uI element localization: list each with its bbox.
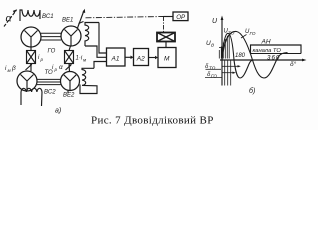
- dim arrow delta TO: [223, 65, 241, 67]
- 3-wire TO bus: [37, 79, 61, 84]
- shaft gearbox-M: [165, 42, 167, 48]
- svg-text:М: М: [164, 56, 170, 63]
- curve TO fine channel: [222, 33, 253, 78]
- svg-text:δ°: δ°: [290, 60, 297, 68]
- mech shaft dash-dot to OP: [86, 17, 164, 18]
- svg-text:α: α: [59, 64, 63, 71]
- rotor winding BE2: [82, 68, 94, 85]
- svg-text:д: д: [211, 43, 214, 49]
- svg-text:а): а): [55, 108, 61, 115]
- hatch area near origin: [219, 35, 229, 59]
- svg-text:ГО: ГО: [48, 49, 56, 55]
- svg-text:ОР: ОР: [176, 14, 186, 21]
- label delta_TO: [206, 68, 222, 70]
- OP box: [164, 12, 189, 21]
- callout box kanala TO: [251, 45, 302, 54]
- svg-text:ГО: ГО: [250, 31, 256, 36]
- wire BE1 bottom to A1: [85, 46, 107, 57]
- label i_p alpha with arrow: [52, 64, 72, 72]
- box A2: [134, 49, 149, 66]
- svg-text:канала ТО: канала ТО: [253, 48, 282, 54]
- angle input alpha: [4, 9, 17, 26]
- svg-text:ВС1: ВС1: [42, 14, 54, 20]
- svg-text:ВЕ1: ВЕ1: [62, 18, 73, 24]
- svg-text:м: м: [83, 58, 87, 63]
- svg-text:ВЕ2: ВЕ2: [63, 93, 75, 99]
- svg-text:ГО: ГО: [211, 74, 217, 79]
- svg-text:ТО: ТО: [209, 66, 216, 71]
- dim arrow delta GO: [223, 72, 236, 74]
- svg-text:360: 360: [267, 55, 280, 62]
- reducer box R2: [65, 46, 74, 72]
- reducer box R1: [27, 47, 36, 71]
- svg-text:1·i: 1·i: [76, 56, 83, 62]
- wire BE1 top to A1: [99, 23, 107, 54]
- svg-text:А1: А1: [111, 56, 120, 63]
- graph x-axis: [220, 59, 307, 62]
- wire BE2 bottom loop: [80, 85, 97, 94]
- arrow A2 to M: [149, 56, 159, 60]
- winding BC2: [21, 88, 42, 106]
- Ud level tick: [219, 47, 225, 49]
- curve GO coarse channel: [222, 31, 288, 78]
- shaft vertical dash-dot: [163, 17, 165, 33]
- svg-text:ТО: ТО: [45, 70, 54, 76]
- svg-text:А2: А2: [136, 56, 145, 63]
- rotor winding BE1: [85, 23, 99, 47]
- svg-text:Рис. 7 Двовідліковий ВР: Рис. 7 Двовідліковий ВР: [91, 115, 214, 127]
- svg-text:ВС2: ВС2: [44, 90, 56, 96]
- selsyn BC2: [17, 71, 37, 91]
- svg-text:м: м: [8, 68, 12, 73]
- svg-text:АН: АН: [261, 39, 271, 46]
- selsyn BC1: [21, 27, 41, 47]
- wire BE2 top to A1: [94, 62, 107, 69]
- svg-text:р: р: [40, 57, 44, 62]
- svg-text:U: U: [212, 18, 218, 25]
- gearbox bowtie: [157, 33, 175, 42]
- svg-text:α: α: [6, 13, 13, 25]
- shaft arrow BE1: [78, 9, 86, 28]
- svg-text:р: р: [54, 67, 58, 72]
- svg-text:б): б): [249, 87, 255, 95]
- selsyn BE1: [61, 26, 81, 46]
- svg-text:β: β: [11, 65, 16, 72]
- label i_m beta with arrow: [5, 64, 32, 73]
- svg-text:180: 180: [235, 53, 246, 59]
- label delta_GO: [205, 77, 222, 79]
- graph y-axis: [221, 16, 224, 86]
- arrow A1 to A2: [125, 56, 134, 60]
- hatch below axis: [225, 61, 231, 86]
- box M: [158, 48, 176, 68]
- selsyn BE2: [61, 72, 80, 94]
- box A1: [107, 48, 126, 66]
- winding BC1: [20, 10, 40, 21]
- 3-wire GO bus: [41, 33, 61, 40]
